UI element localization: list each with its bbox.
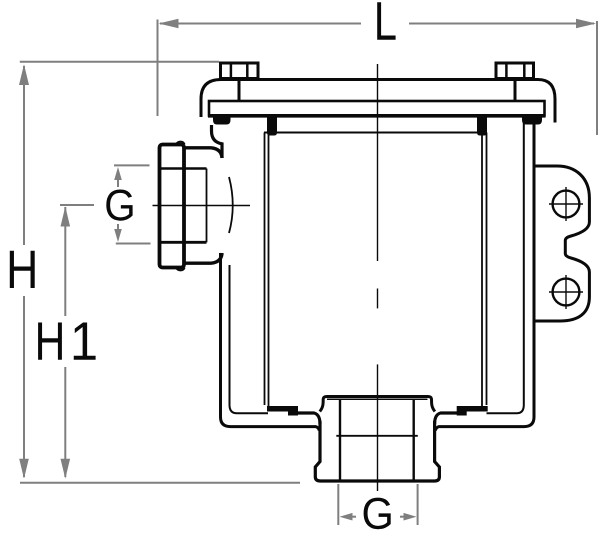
seal left xyxy=(267,118,277,136)
extension line left for L xyxy=(157,20,159,117)
clamp band flange xyxy=(209,101,545,116)
bottom port rim xyxy=(320,397,435,412)
seal right xyxy=(477,118,487,136)
side port neck top xyxy=(184,148,222,158)
glass bottom bar right xyxy=(457,406,488,416)
extension line right for L xyxy=(596,21,598,135)
label G left xyxy=(106,190,132,221)
dimension G left xyxy=(114,165,151,243)
glass walls xyxy=(265,133,487,407)
glass bottom bar left xyxy=(267,406,298,416)
bottom port outer profile with foot collar and face xyxy=(315,421,439,481)
label H1 - H xyxy=(38,323,62,360)
bottom extension line xyxy=(20,482,300,484)
dimension G bottom xyxy=(338,484,417,525)
bottom port bore xyxy=(336,400,418,480)
right body wall xyxy=(435,123,534,431)
bolt 1 xyxy=(221,63,259,101)
label H1 - 1 xyxy=(74,323,96,360)
left inner wall xyxy=(230,265,269,413)
flange chamfer bump top xyxy=(176,142,185,145)
label G bottom xyxy=(364,498,391,530)
label L xyxy=(377,2,395,39)
side port flange xyxy=(160,145,185,268)
dimension L line xyxy=(159,19,597,29)
bracket hole 1 xyxy=(549,187,583,221)
dimension H1 xyxy=(60,205,94,479)
floor step right xyxy=(435,413,459,424)
body wall above side port xyxy=(212,125,223,158)
vertical centerline xyxy=(377,64,379,491)
mounting bracket xyxy=(534,166,589,321)
bracket hole 2 xyxy=(549,275,583,309)
right inner wall xyxy=(487,117,524,413)
lid cover plate xyxy=(201,80,555,123)
flange chamfer bump bottom xyxy=(176,268,185,271)
clamp claw right xyxy=(522,116,542,125)
floor step left xyxy=(296,413,320,424)
side port neck bottom xyxy=(184,253,222,263)
horizontal centerline of side port xyxy=(153,205,251,207)
label H xyxy=(10,251,35,288)
clamp claw left xyxy=(213,116,231,125)
glass rim xyxy=(264,132,487,134)
dimension H xyxy=(19,62,219,479)
side port bore xyxy=(161,169,233,243)
bolt 2 xyxy=(496,63,534,101)
left body wall xyxy=(221,253,320,431)
